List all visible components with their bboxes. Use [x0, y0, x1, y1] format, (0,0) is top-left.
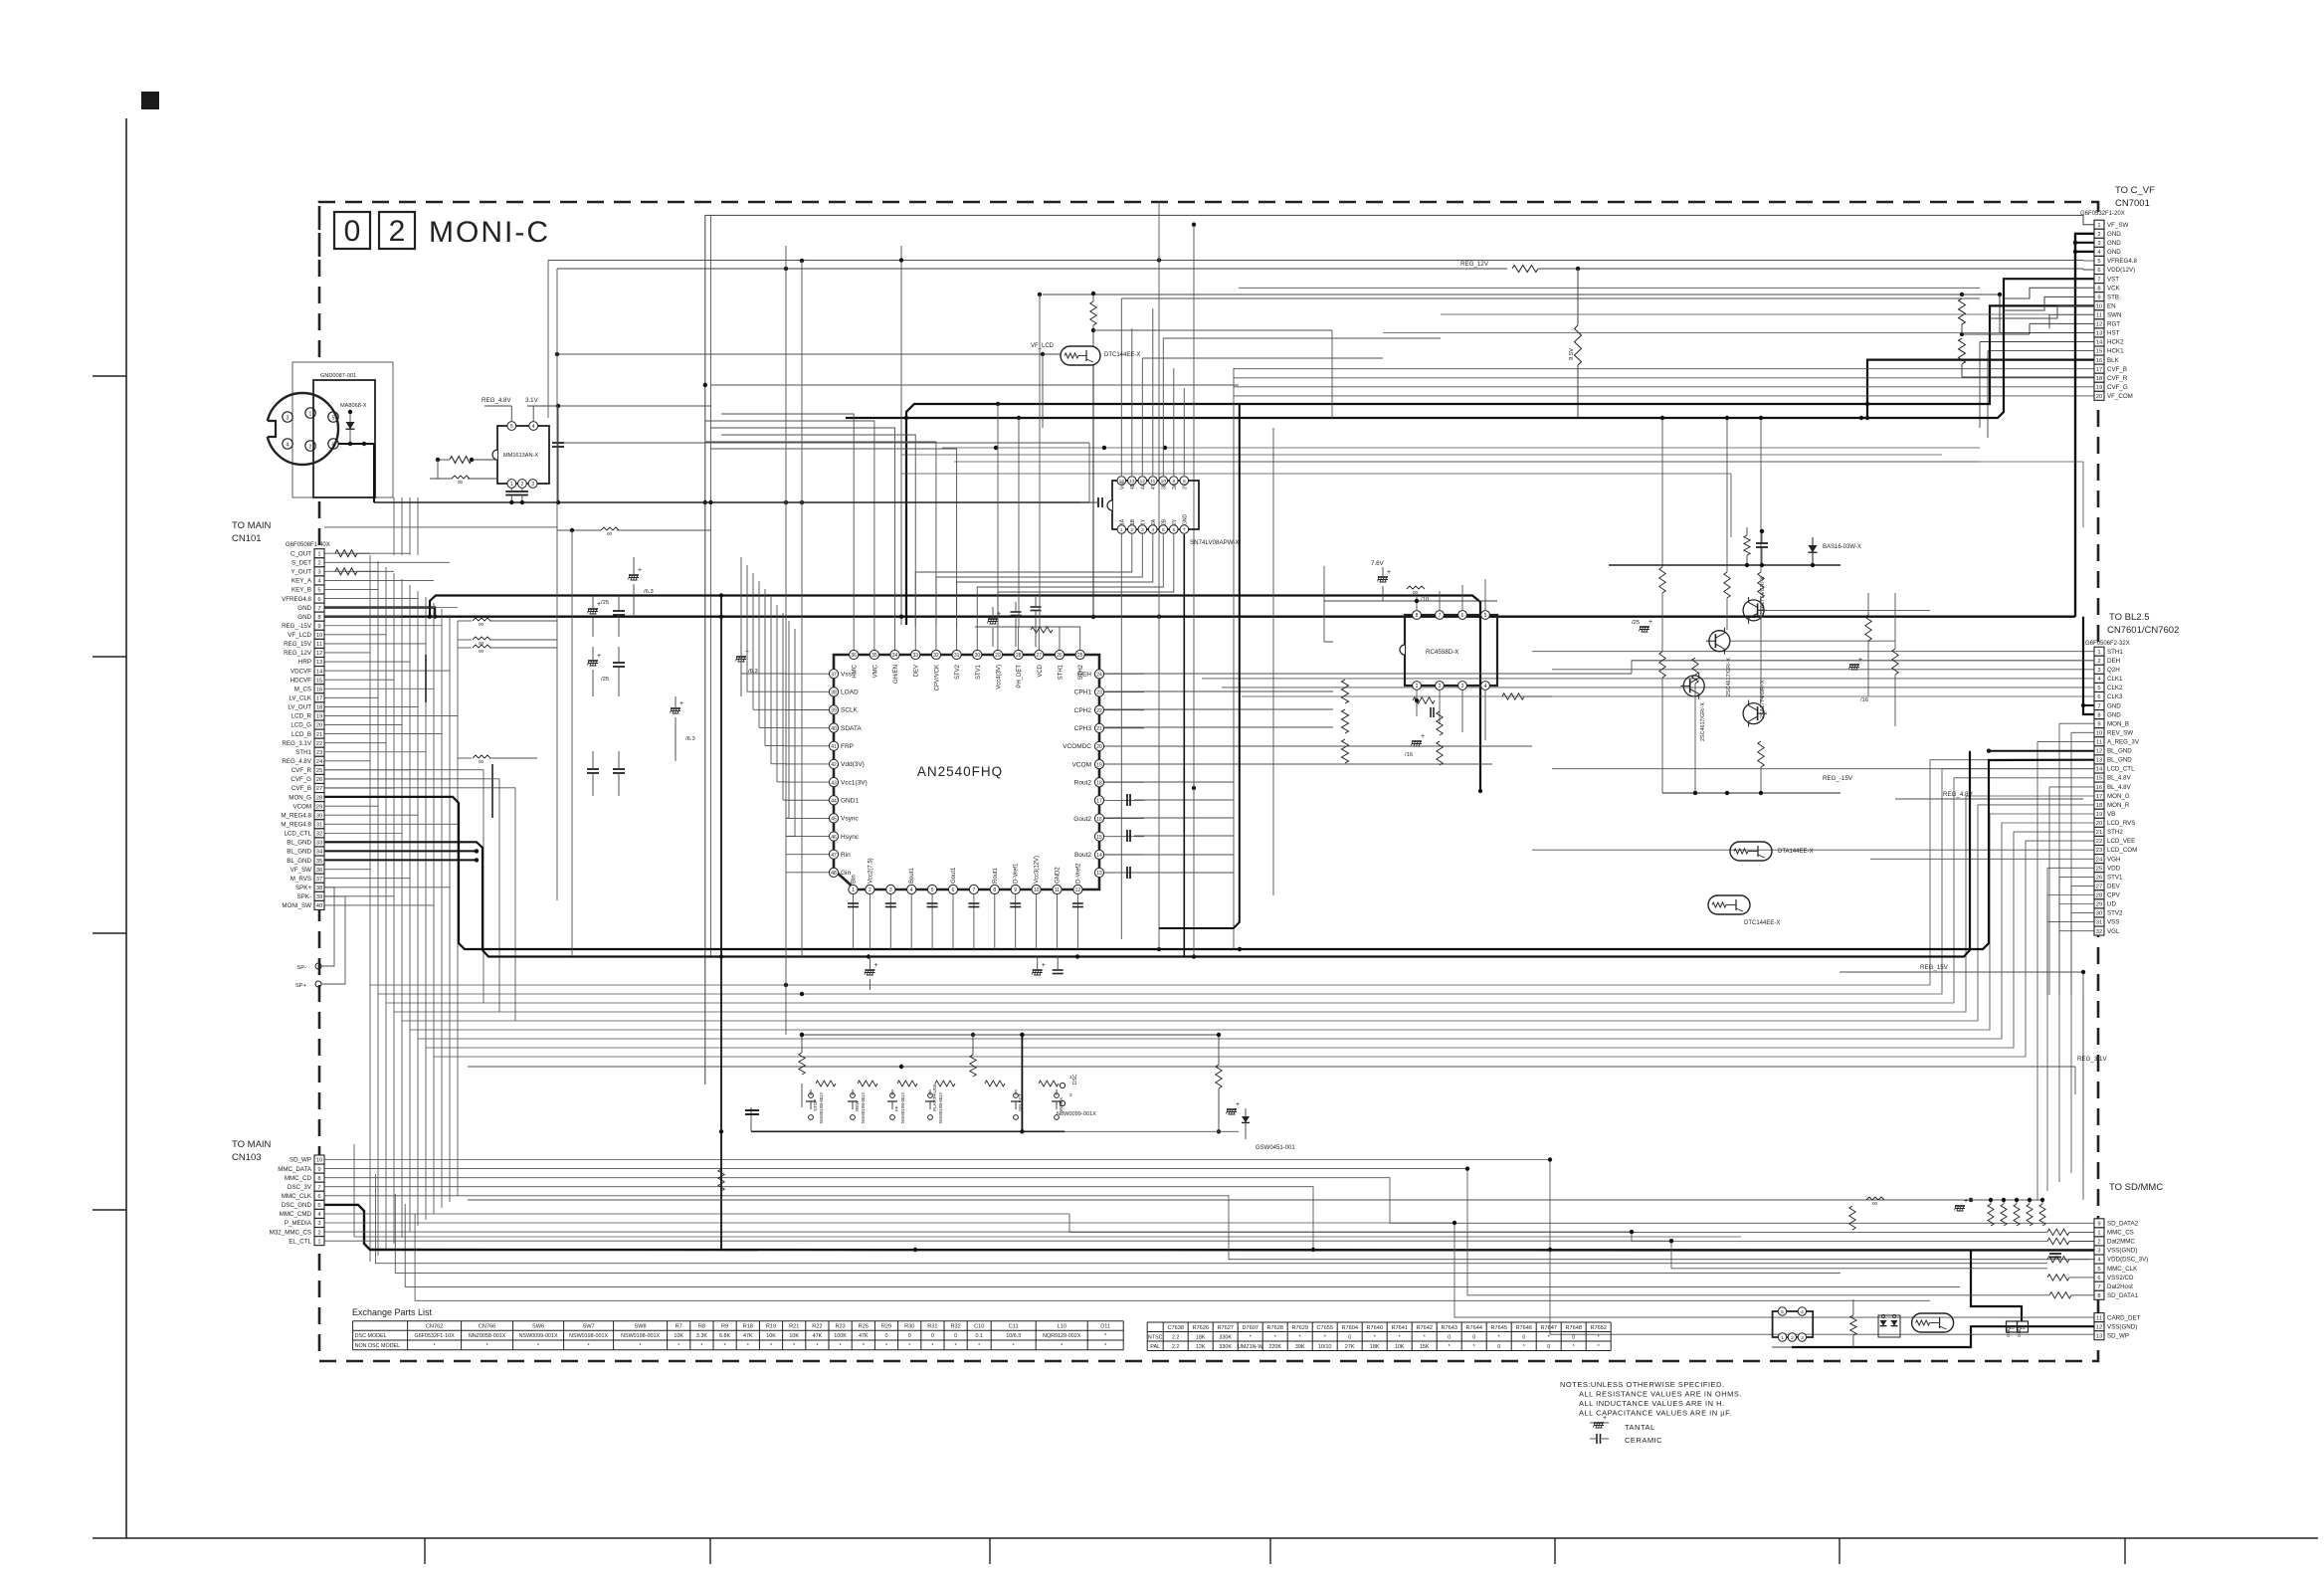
wire GND stub pin4: [2075, 251, 2094, 253]
resistor above STOP: [799, 1053, 805, 1075]
svg-text:STV2: STV2: [955, 664, 961, 680]
svg-text:/6.3: /6.3: [644, 589, 654, 595]
svg-text:2: 2: [317, 560, 320, 566]
svg-text:VF_COM: VF_COM: [2107, 393, 2133, 400]
switch STOP: [809, 1093, 814, 1098]
wire CN7601 mid pin stubs: [2059, 722, 2094, 724]
svg-text:7.6V: 7.6V: [1371, 560, 1385, 567]
svg-text:STV1: STV1: [976, 664, 982, 680]
wire thick vertical x725: [720, 596, 722, 1251]
svg-text:5: 5: [317, 1203, 320, 1209]
svg-text:30: 30: [974, 653, 980, 659]
svg-text:5: 5: [931, 887, 934, 893]
SN74 top pins 14..8: [1117, 477, 1126, 486]
svg-text:G6F0532F1-10X: G6F0532F1-10X: [415, 1333, 456, 1339]
svg-text:CN103: CN103: [232, 1152, 262, 1163]
svg-text:39: 39: [316, 894, 322, 900]
svg-text:REG_-15V: REG_-15V: [1823, 775, 1853, 782]
svg-text:VMC: VMC: [872, 664, 878, 678]
svg-text:BL_GND: BL_GND: [2107, 757, 2132, 764]
S-video pin 1: [305, 408, 315, 418]
svg-text:26: 26: [1057, 653, 1063, 659]
svg-text:8: 8: [2097, 712, 2100, 718]
tantalum /6.3 cluster: [629, 574, 639, 576]
svg-text:STV1: STV1: [2107, 874, 2123, 881]
svg-text:VGL: VGL: [2107, 928, 2120, 935]
wire long net y464b: [954, 461, 2083, 463]
svg-text:GND1: GND1: [841, 797, 859, 804]
svg-text:47K: 47K: [743, 1333, 753, 1339]
svg-text:2: 2: [309, 445, 312, 451]
tantalum /6.3 mid: [671, 707, 680, 709]
svg-text:1: 1: [2097, 223, 2100, 229]
digital transistor DTC144EE-X right: [1708, 895, 1750, 914]
svg-text:6: 6: [2097, 268, 2100, 274]
svg-text:32: 32: [933, 653, 939, 659]
svg-text:PAL: PAL: [1150, 1344, 1160, 1350]
svg-text:11: 11: [2096, 1315, 2102, 1321]
svg-text:13: 13: [2096, 1333, 2102, 1339]
svg-text:3: 3: [1801, 1335, 1804, 1341]
svg-text:PLAY/PAUSE: PLAY/PAUSE: [932, 1083, 937, 1111]
svg-text:4: 4: [287, 443, 290, 449]
tantalum below U1 pin10: [1033, 969, 1043, 971]
svg-text:GND: GND: [297, 605, 311, 612]
svg-text:20: 20: [316, 723, 322, 729]
thick GND bottom segment: [1792, 1346, 1889, 1348]
svg-text:10K: 10K: [1395, 1344, 1405, 1350]
svg-text:12: 12: [1075, 887, 1081, 893]
svg-text:19: 19: [1096, 762, 1102, 768]
wire step pin10 EN: [1990, 305, 2094, 318]
svg-text:D-Vref2: D-Vref2: [1075, 863, 1081, 884]
svg-text:27: 27: [316, 786, 322, 792]
switch INDEX: [1055, 1093, 1060, 1098]
connector CN103 TO MAIN: [314, 1155, 324, 1164]
svg-text:NQR0129-002X: NQR0129-002X: [1043, 1333, 1081, 1339]
svg-text:24: 24: [2096, 857, 2103, 863]
capacitor at MM1613 right: [552, 442, 564, 444]
MM1613 pin 4: [529, 422, 538, 431]
thick bus VDD mid y406: [906, 305, 2094, 625]
svg-text:6: 6: [1461, 613, 1464, 619]
dashed MONI-C module boundary box: [319, 202, 2098, 1361]
svg-text:10: 10: [2096, 303, 2102, 309]
svg-text:BL_GND: BL_GND: [287, 849, 311, 856]
wire RC4558 top leads: [1416, 597, 1418, 610]
svg-text:2: 2: [1069, 1092, 1072, 1098]
page corner registration square: [141, 92, 159, 109]
svg-text:CERAMIC: CERAMIC: [1625, 1436, 1662, 1445]
U1 left pin circles 37..48: [829, 670, 838, 679]
svg-text:5: 5: [317, 588, 320, 594]
AND gate IC SN74LV08APW-X body: [1112, 481, 1199, 529]
legend ceramic symbol: [1590, 1438, 1596, 1440]
bead below resistor: [452, 476, 470, 479]
wire RC4558 bottom leads: [1416, 690, 1418, 716]
svg-text:6: 6: [2097, 694, 2100, 700]
svg-text:330K: 330K: [1219, 1344, 1232, 1350]
SN74 bottom pins 1..7: [1117, 525, 1126, 534]
wire step pin8 VCK: [2004, 288, 2094, 298]
wire VF_SW net top: [705, 215, 2094, 224]
svg-text:8: 8: [2097, 286, 2100, 292]
capacitor C right of pin15: [1126, 830, 1128, 842]
svg-text:+: +: [1858, 657, 1862, 664]
svg-text:Vcc: Vcc: [1119, 481, 1125, 490]
svg-text:G6F0532F1-20X: G6F0532F1-20X: [2080, 211, 2125, 217]
svg-text:18: 18: [316, 705, 322, 711]
oval transistor br: [1912, 1313, 1954, 1332]
svg-text:INDEX: INDEX: [1059, 1097, 1064, 1111]
svg-text:LV_CLK: LV_CLK: [289, 695, 311, 702]
svg-text:VCOMDC: VCOMDC: [1063, 743, 1091, 750]
svg-text:D-Vref1: D-Vref1: [1014, 863, 1020, 884]
svg-text:7: 7: [2097, 277, 2100, 283]
svg-text:29: 29: [316, 804, 322, 810]
svg-text:13: 13: [2096, 758, 2102, 764]
wire CN103 nets to SD/MMC: [324, 1160, 2094, 1335]
svg-text:5: 5: [2097, 686, 2100, 691]
svg-text:STH1: STH1: [1059, 664, 1065, 680]
svg-text:LCD_CTL: LCD_CTL: [2107, 766, 2135, 773]
svg-text:R9: R9: [721, 1324, 728, 1330]
svg-text:3: 3: [317, 1221, 320, 1227]
svg-text:P_MEDIA: P_MEDIA: [285, 1220, 312, 1227]
svg-text:NSW0198-001X: NSW0198-001X: [569, 1333, 608, 1339]
transistor Q 2SC4617 lower: [1683, 676, 1704, 696]
svg-text:15: 15: [316, 678, 322, 684]
svg-text:7: 7: [2097, 703, 2100, 709]
svg-text:DTC144EE-X: DTC144EE-X: [1104, 352, 1140, 358]
resistor right pair: [1865, 615, 1871, 641]
wire vertical trunk x714: [709, 215, 711, 957]
svg-text:MMC_CLK: MMC_CLK: [2107, 1266, 2138, 1273]
svg-text:GND: GND: [2017, 1326, 2022, 1337]
svg-text:2: 2: [2097, 1240, 2100, 1246]
beads stack x483: [473, 618, 490, 621]
svg-text:15: 15: [1096, 835, 1102, 841]
thick bus y420: [846, 279, 2094, 418]
resistor left of BAS16: [1744, 535, 1750, 555]
wire CN7001 pin15 HCK1: [1988, 350, 2094, 352]
svg-text:34: 34: [892, 653, 898, 659]
wire S-video pin6 bus: [338, 443, 374, 445]
svg-text:CN7601/CN7602: CN7601/CN7602: [2107, 625, 2179, 636]
svg-text:Dat2Host: Dat2Host: [2107, 1283, 2133, 1290]
wire vertical x575: [571, 530, 573, 956]
svg-text:0: 0: [1572, 1335, 1575, 1341]
svg-text:47: 47: [831, 853, 837, 859]
wire CN7601 pin24 VGH net: [1870, 858, 2094, 860]
svg-text:Gout2: Gout2: [1073, 816, 1091, 823]
wire long net y450: [942, 447, 1980, 449]
svg-text:DTC144EE-X: DTC144EE-X: [1744, 920, 1780, 926]
svg-text:00: 00: [607, 531, 613, 536]
svg-text:REG_15V: REG_15V: [284, 641, 312, 648]
svg-text:Vdd(3V): Vdd(3V): [841, 761, 865, 768]
svg-text:5: 5: [510, 424, 513, 430]
svg-text:22: 22: [1096, 708, 1102, 714]
svg-text:MON_B: MON_B: [2107, 720, 2129, 727]
svg-text:HMC: HMC: [853, 664, 859, 678]
svg-text:Bout1: Bout1: [909, 868, 915, 884]
svg-text:2SC4617/GR/-X: 2SC4617/GR/-X: [1726, 658, 1732, 696]
svg-text:S_DET: S_DET: [291, 559, 311, 566]
svg-text:29: 29: [2096, 902, 2102, 908]
svg-text:DEV: DEV: [2107, 883, 2121, 889]
svg-text:CN101: CN101: [232, 533, 262, 544]
wire CN7601 pin7 GND stub: [2083, 704, 2094, 706]
svg-text:31: 31: [954, 653, 960, 659]
svg-text:00: 00: [458, 480, 464, 485]
wire BAS16 rail: [1609, 564, 1840, 566]
svg-text:28: 28: [316, 795, 322, 801]
svg-text:+: +: [873, 962, 877, 969]
svg-text:5: 5: [2097, 1267, 2100, 1273]
svg-text:21: 21: [316, 732, 322, 738]
wire CN7601 GND riser thick: [2083, 617, 2094, 714]
wire net y476: [901, 473, 1731, 475]
svg-text:9.5V: 9.5V: [1569, 348, 1575, 360]
svg-text:M_CS: M_CS: [294, 686, 311, 692]
wire REG_12V horizontal net: [557, 268, 1507, 270]
svg-text:R7640: R7640: [1366, 1325, 1382, 1331]
svg-text:SPK-: SPK-: [297, 893, 311, 900]
svg-text:1: 1: [317, 551, 320, 557]
wire bundle verticals from CN101 (left riser bundle): [369, 555, 371, 1262]
svg-text:21: 21: [1096, 726, 1102, 732]
svg-text:R30: R30: [904, 1324, 914, 1330]
svg-text:STOP: STOP: [813, 1099, 818, 1111]
svg-text:19: 19: [2096, 385, 2102, 391]
svg-text:10K: 10K: [674, 1333, 683, 1339]
svg-text:MMC_CLK: MMC_CLK: [282, 1193, 312, 1200]
capacitor MM1613 pin2: [516, 491, 528, 492]
svg-text:Q2H: Q2H: [2107, 667, 2120, 674]
svg-text:LCD_VEE: LCD_VEE: [2107, 838, 2135, 845]
svg-text:NOTES:UNLESS OTHERWISE SPECIFI: NOTES:UNLESS OTHERWISE SPECIFIED.: [1560, 1380, 1725, 1389]
svg-text:10: 10: [316, 1158, 322, 1164]
wire CN7601 upper pin nets: [1532, 651, 2094, 653]
svg-text:C7655: C7655: [1316, 1325, 1332, 1331]
svg-text:00: 00: [479, 649, 484, 654]
wire CN7601 right riser verticals: [2036, 995, 2038, 1200]
svg-text:SWN: SWN: [2107, 312, 2121, 319]
svg-text:VSS(GND): VSS(GND): [2107, 1248, 2137, 1255]
thick bus B y961: [324, 751, 1970, 957]
S-video pin 4: [283, 439, 292, 449]
svg-text:NSW0099-001X: NSW0099-001X: [519, 1333, 558, 1339]
wire SD supply rail y1206: [468, 1199, 2040, 1201]
svg-text:1: 1: [510, 482, 513, 488]
svg-text:R19: R19: [766, 1324, 776, 1330]
svg-text:4A: 4A: [1140, 483, 1146, 490]
svg-text:DEV: DEV: [914, 665, 920, 677]
svg-text:REG_3.1V: REG_3.1V: [282, 740, 311, 747]
svg-text:31: 31: [316, 823, 322, 829]
svg-text:R21: R21: [789, 1324, 799, 1330]
svg-text:3: 3: [531, 482, 534, 488]
wire top-right horizontals: [1239, 287, 1980, 289]
svg-text:VGH: VGH: [2107, 856, 2120, 863]
svg-text:DSC_3V: DSC_3V: [288, 1184, 312, 1191]
svg-text:10K: 10K: [766, 1333, 776, 1339]
svg-text:5: 5: [1162, 527, 1165, 533]
svg-text:3: 3: [889, 887, 892, 893]
svg-text:R7604: R7604: [1341, 1325, 1357, 1331]
svg-text:C10: C10: [974, 1324, 984, 1330]
svg-text:MONI_SW: MONI_SW: [282, 902, 311, 909]
svg-text:R7628: R7628: [1266, 1325, 1282, 1331]
svg-text:GND2: GND2: [1056, 867, 1062, 884]
svg-text:GND: GND: [2107, 249, 2121, 256]
svg-text:DSC: DSC: [1072, 1074, 1078, 1084]
svg-text:NSW019B-001X: NSW019B-001X: [861, 1091, 866, 1123]
svg-text:STH1: STH1: [2107, 649, 2123, 656]
wire U1 bottom pin drops to bus: [853, 894, 855, 949]
resistor below RC4558 pin2: [1437, 711, 1443, 735]
svg-text:R22: R22: [812, 1324, 822, 1330]
svg-text:GND: GND: [1182, 514, 1188, 526]
svg-text:39K: 39K: [1295, 1344, 1305, 1350]
wire DTC144 top output: [1093, 329, 1332, 331]
wire VF_LCD stub: [1043, 353, 1061, 355]
wire 7.6V box outline: [1324, 566, 1333, 642]
svg-text:STV2: STV2: [2107, 910, 2123, 917]
cap pair lower: [587, 768, 599, 770]
svg-text:18: 18: [2096, 803, 2102, 809]
svg-text:HDCVF: HDCVF: [290, 677, 312, 684]
resistor on x725 lower: [718, 1169, 724, 1191]
svg-text:L10: L10: [1058, 1324, 1066, 1330]
svg-text:1: 1: [2097, 650, 2100, 656]
svg-text:MMC_CMD: MMC_CMD: [280, 1211, 312, 1218]
wire REG_4.8V right line: [1895, 798, 2083, 800]
svg-text:48: 48: [831, 871, 837, 877]
transistor Q 2SA1774 bottom: [1743, 703, 1764, 724]
svg-text:DEH: DEH: [1077, 672, 1091, 679]
svg-text:Rout2: Rout2: [1074, 779, 1092, 786]
svg-text:25: 25: [316, 768, 322, 774]
bottom page border line: [93, 1537, 2318, 1539]
tantalum cap /16 below RC4558: [1412, 740, 1422, 742]
svg-text:MONI-C: MONI-C: [429, 216, 550, 249]
svg-text:10/6.3: 10/6.3: [1006, 1333, 1021, 1339]
svg-text:15K: 15K: [1420, 1344, 1430, 1350]
wire sd pin8 resistor: [2049, 1292, 2071, 1298]
svg-text:SD_WP: SD_WP: [290, 1157, 311, 1164]
svg-text:CPH1: CPH1: [1074, 689, 1092, 696]
left border tick marks: [93, 375, 126, 377]
svg-text:REG_3.1V: REG_3.1V: [2077, 1056, 2107, 1063]
svg-text:40: 40: [316, 903, 322, 909]
svg-text:R7646: R7646: [1515, 1325, 1531, 1331]
svg-text:CLK1: CLK1: [2107, 676, 2123, 683]
tantalum /6.3 at x722: [736, 656, 746, 658]
svg-text:0: 0: [1448, 1335, 1451, 1341]
svg-text:VSS(GND): VSS(GND): [2107, 1323, 2137, 1330]
svg-text:16: 16: [2096, 358, 2102, 364]
svg-text:00: 00: [479, 622, 484, 627]
RC4558 bottom pins 1..4: [1413, 682, 1422, 690]
svg-text:R7647: R7647: [1540, 1325, 1556, 1331]
svg-text:330K: 330K: [1219, 1335, 1232, 1341]
svg-text:10: 10: [316, 633, 322, 639]
dual diode pack br: [1878, 1315, 1900, 1337]
svg-text:VDD: VDD: [2107, 865, 2121, 872]
svg-text:Hsync: Hsync: [841, 834, 860, 841]
resistor above SELECT: [970, 1055, 976, 1077]
svg-text:17: 17: [1096, 799, 1102, 805]
bead x483 lower: [473, 755, 490, 758]
svg-text:SD_DATA2: SD_DATA2: [2107, 1221, 2139, 1228]
svg-text:32: 32: [316, 832, 322, 838]
svg-text:0: 0: [931, 1333, 934, 1339]
svg-text:6: 6: [317, 597, 320, 603]
svg-text:4: 4: [1151, 527, 1154, 533]
svg-text:+: +: [597, 653, 601, 660]
svg-text:5: 5: [332, 416, 335, 422]
svg-text:41: 41: [831, 744, 837, 750]
svg-text:2: 2: [389, 215, 406, 248]
svg-text:9: 9: [2097, 295, 2100, 300]
svg-text:+: +: [638, 567, 642, 574]
wire thick rounded bus y598: [430, 596, 1480, 792]
thick GND riser to CN7001 GND pins: [2075, 234, 2094, 617]
wire CVF_G long net to pin19: [1234, 386, 2094, 388]
svg-text:R7644: R7644: [1465, 1325, 1481, 1331]
wire net y387: [711, 384, 1239, 386]
svg-text:47K: 47K: [859, 1333, 869, 1339]
svg-text:4: 4: [1484, 684, 1487, 689]
svg-text:SW7: SW7: [583, 1324, 595, 1330]
svg-text:11: 11: [316, 642, 322, 648]
jumper boxes 10 14: [2007, 1321, 2018, 1332]
svg-text:C7638: C7638: [1167, 1325, 1183, 1331]
svg-text:16: 16: [1096, 817, 1102, 823]
wire BL_GND stub 35: [324, 859, 477, 861]
svg-text:27K: 27K: [1345, 1344, 1355, 1350]
tantalum cap /25 at cluster: [1640, 626, 1649, 628]
svg-text:18K: 18K: [1370, 1344, 1380, 1350]
svg-text:VCOM: VCOM: [1072, 761, 1092, 768]
svg-text:3.1V: 3.1V: [525, 397, 539, 404]
capacitor C right of pin13: [1126, 867, 1128, 879]
svg-text:14: 14: [2096, 340, 2103, 346]
wire CN7001 pin13 HST: [1999, 295, 2001, 333]
svg-text:REG_15V: REG_15V: [1920, 964, 1949, 971]
svg-text:STH2: STH2: [2107, 829, 2123, 836]
transistor Q 2SC4617 upper: [1709, 631, 1730, 652]
svg-text:TO C_VF: TO C_VF: [2115, 185, 2155, 196]
thick bus GND from CN101 pin8: [324, 616, 2075, 618]
svg-text:46: 46: [831, 835, 837, 841]
wire RC4558 supply rail: [1324, 600, 1497, 602]
svg-text:REG_4.8V: REG_4.8V: [1943, 791, 1973, 798]
svg-text:Y_OUT: Y_OUT: [290, 569, 311, 576]
wire U1 left pin leads: [786, 673, 829, 675]
svg-text:CPV: CPV: [2107, 892, 2121, 899]
svg-text:CVF_B: CVF_B: [291, 785, 311, 792]
svg-text:33: 33: [316, 841, 322, 847]
svg-text:3Y: 3Y: [1182, 483, 1188, 490]
IC br pin 4: [1798, 1307, 1806, 1315]
wire 9.5V resistor branch: [1575, 325, 1582, 365]
svg-text:MM1613AN-X: MM1613AN-X: [503, 453, 538, 459]
svg-text:8: 8: [317, 1176, 320, 1182]
svg-text:2: 2: [869, 887, 871, 893]
